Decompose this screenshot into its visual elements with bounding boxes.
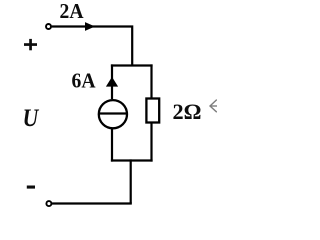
editor cursor mark (gray, right edge) [210, 100, 217, 113]
current source I1 : circle [99, 100, 127, 128]
svg-text:2Ω: 2Ω [173, 99, 202, 124]
wire : left branch upper [111, 64, 113, 99]
current source arrow (pointing up) [106, 77, 118, 87]
current arrow 2A (reference direction, pointing right) [85, 22, 95, 31]
node bottom bus [111, 159, 153, 161]
label + polarity [24, 43, 37, 46]
wire : left branch lower [111, 129, 113, 162]
resistor R1 : 2 ohm body [146, 99, 159, 123]
node top bus [111, 64, 153, 66]
node + : top-left terminal [46, 24, 51, 29]
wire : drop from bottom bus [130, 159, 132, 203]
svg-text:U: U [23, 105, 40, 132]
wire : right branch lower [150, 123, 152, 162]
wire : bottom horizontal [52, 202, 132, 204]
current source I1 : bar [98, 112, 127, 114]
svg-text:6A: 6A [72, 68, 97, 92]
svg-text:2A: 2A [60, 0, 85, 23]
node - : bottom-left terminal [46, 201, 51, 206]
label - polarity [27, 186, 35, 189]
wire : top horizontal with corner down to node [52, 27, 133, 67]
wire : right branch upper [150, 64, 152, 98]
